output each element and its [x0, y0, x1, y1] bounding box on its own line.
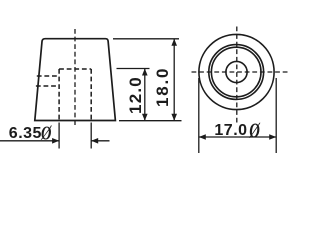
svg-text:6.35: 6.35: [9, 125, 42, 142]
dimension line 18.0: [173, 39, 175, 121]
extension line top (18.0): [113, 38, 179, 40]
dimension line 6.35 right part: [91, 140, 109, 142]
top view vertical centerline: [236, 27, 238, 123]
svg-text:17.0: 17.0: [214, 122, 247, 139]
dimension line 12.0: [144, 69, 146, 121]
hidden side hole bottom edge: [36, 85, 59, 87]
extension line hole top (12.0): [117, 68, 150, 70]
top view outer circle: [199, 34, 274, 109]
extension line 6.35 left: [58, 123, 60, 149]
hidden hole right edge: [90, 69, 92, 121]
side view vertical centerline: [74, 29, 76, 127]
hidden hole left edge: [58, 69, 60, 121]
extension line 17.0 right: [275, 78, 277, 153]
top view hole circle: [226, 61, 247, 82]
top view chamfer circle outer: [209, 45, 264, 100]
dimension line 17.0: [199, 136, 276, 138]
hidden hole top: [59, 68, 91, 70]
svg-text:18.0: 18.0: [153, 67, 172, 107]
extension line 17.0 left: [198, 78, 200, 153]
extension line 6.35 right: [90, 123, 92, 149]
side view body outline (trapezoid): [35, 39, 116, 121]
top view horizontal centerline: [192, 71, 290, 73]
hidden side hole top edge: [37, 75, 59, 77]
svg-text:Ø: Ø: [40, 121, 52, 144]
extension line bottom: [119, 120, 182, 122]
dimension line 6.35 left part: [0, 140, 59, 142]
svg-text:12.0: 12.0: [126, 76, 145, 114]
svg-text:Ø: Ø: [248, 119, 260, 142]
top view chamfer circle inner: [211, 47, 261, 97]
